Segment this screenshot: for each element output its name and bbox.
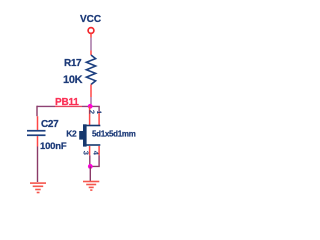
svg-text:3: 3	[82, 151, 91, 155]
svg-text:R17: R17	[64, 58, 82, 69]
junction ground node dot	[88, 164, 93, 169]
svg-text:C27: C27	[41, 119, 59, 130]
svg-text:100nF: 100nF	[40, 141, 67, 152]
switch K2 body top edge	[87, 125, 101, 127]
ground symbol right bar 3	[89, 187, 94, 189]
power port VCC stub	[90, 34, 92, 38]
wire horizontal middle segment under PB11	[55, 105, 82, 107]
svg-text:2: 2	[87, 110, 96, 114]
resistor R17 pin 2	[90, 85, 92, 98]
svg-text:5d1x5d1mm: 5d1x5d1mm	[92, 129, 136, 138]
ground symbol right bar 4	[90, 189, 92, 191]
ground symbol left bar 4	[37, 192, 40, 194]
ground symbol right bar 1	[83, 181, 99, 183]
wire C27 to ground	[37, 147, 39, 183]
wire down to C27	[36, 106, 38, 117]
wire junction to K2 top-right pin	[98, 106, 100, 112]
svg-text:10K: 10K	[63, 74, 83, 86]
capacitor C27 top plate	[27, 130, 46, 132]
wire K2 pin 3 to ground node	[89, 155, 91, 164]
ground symbol right bar 2	[86, 184, 96, 186]
switch K2 pin top-right	[98, 112, 100, 126]
wire R17 to node PB11	[90, 97, 92, 104]
switch K2 plunger bar	[83, 124, 87, 146]
switch K2 pin top-left	[89, 106, 91, 125]
capacitor C27 pin 1	[37, 116, 39, 130]
wire horizontal right segment to K2	[82, 105, 100, 107]
wire ground node to ground symbol	[89, 166, 91, 181]
resistor R17 zigzag body	[86, 55, 95, 85]
capacitor C27 pin 2	[37, 136, 39, 146]
junction node PB11 dot	[88, 104, 93, 109]
ground symbol left bar 1	[30, 182, 46, 184]
switch K2 pin bottom-right	[98, 146, 100, 155]
switch K2 pin bottom-left	[89, 146, 91, 155]
wire horizontal left C27 segment	[37, 105, 55, 107]
svg-text:VCC: VCC	[80, 14, 101, 25]
switch K2 plunger tab	[79, 131, 83, 140]
ground symbol left bar 2	[33, 186, 44, 188]
power port VCC circle	[88, 28, 94, 34]
wire VCC to R17	[90, 38, 92, 51]
ground symbol left bar 3	[35, 189, 41, 191]
resistor R17 pin 1	[90, 51, 92, 56]
wire K2 pin 4 L-bend to ground node	[92, 155, 99, 166]
switch K2 body bottom edge	[87, 144, 101, 146]
capacitor C27 bottom plate	[27, 134, 46, 136]
svg-text:K2: K2	[66, 129, 77, 139]
